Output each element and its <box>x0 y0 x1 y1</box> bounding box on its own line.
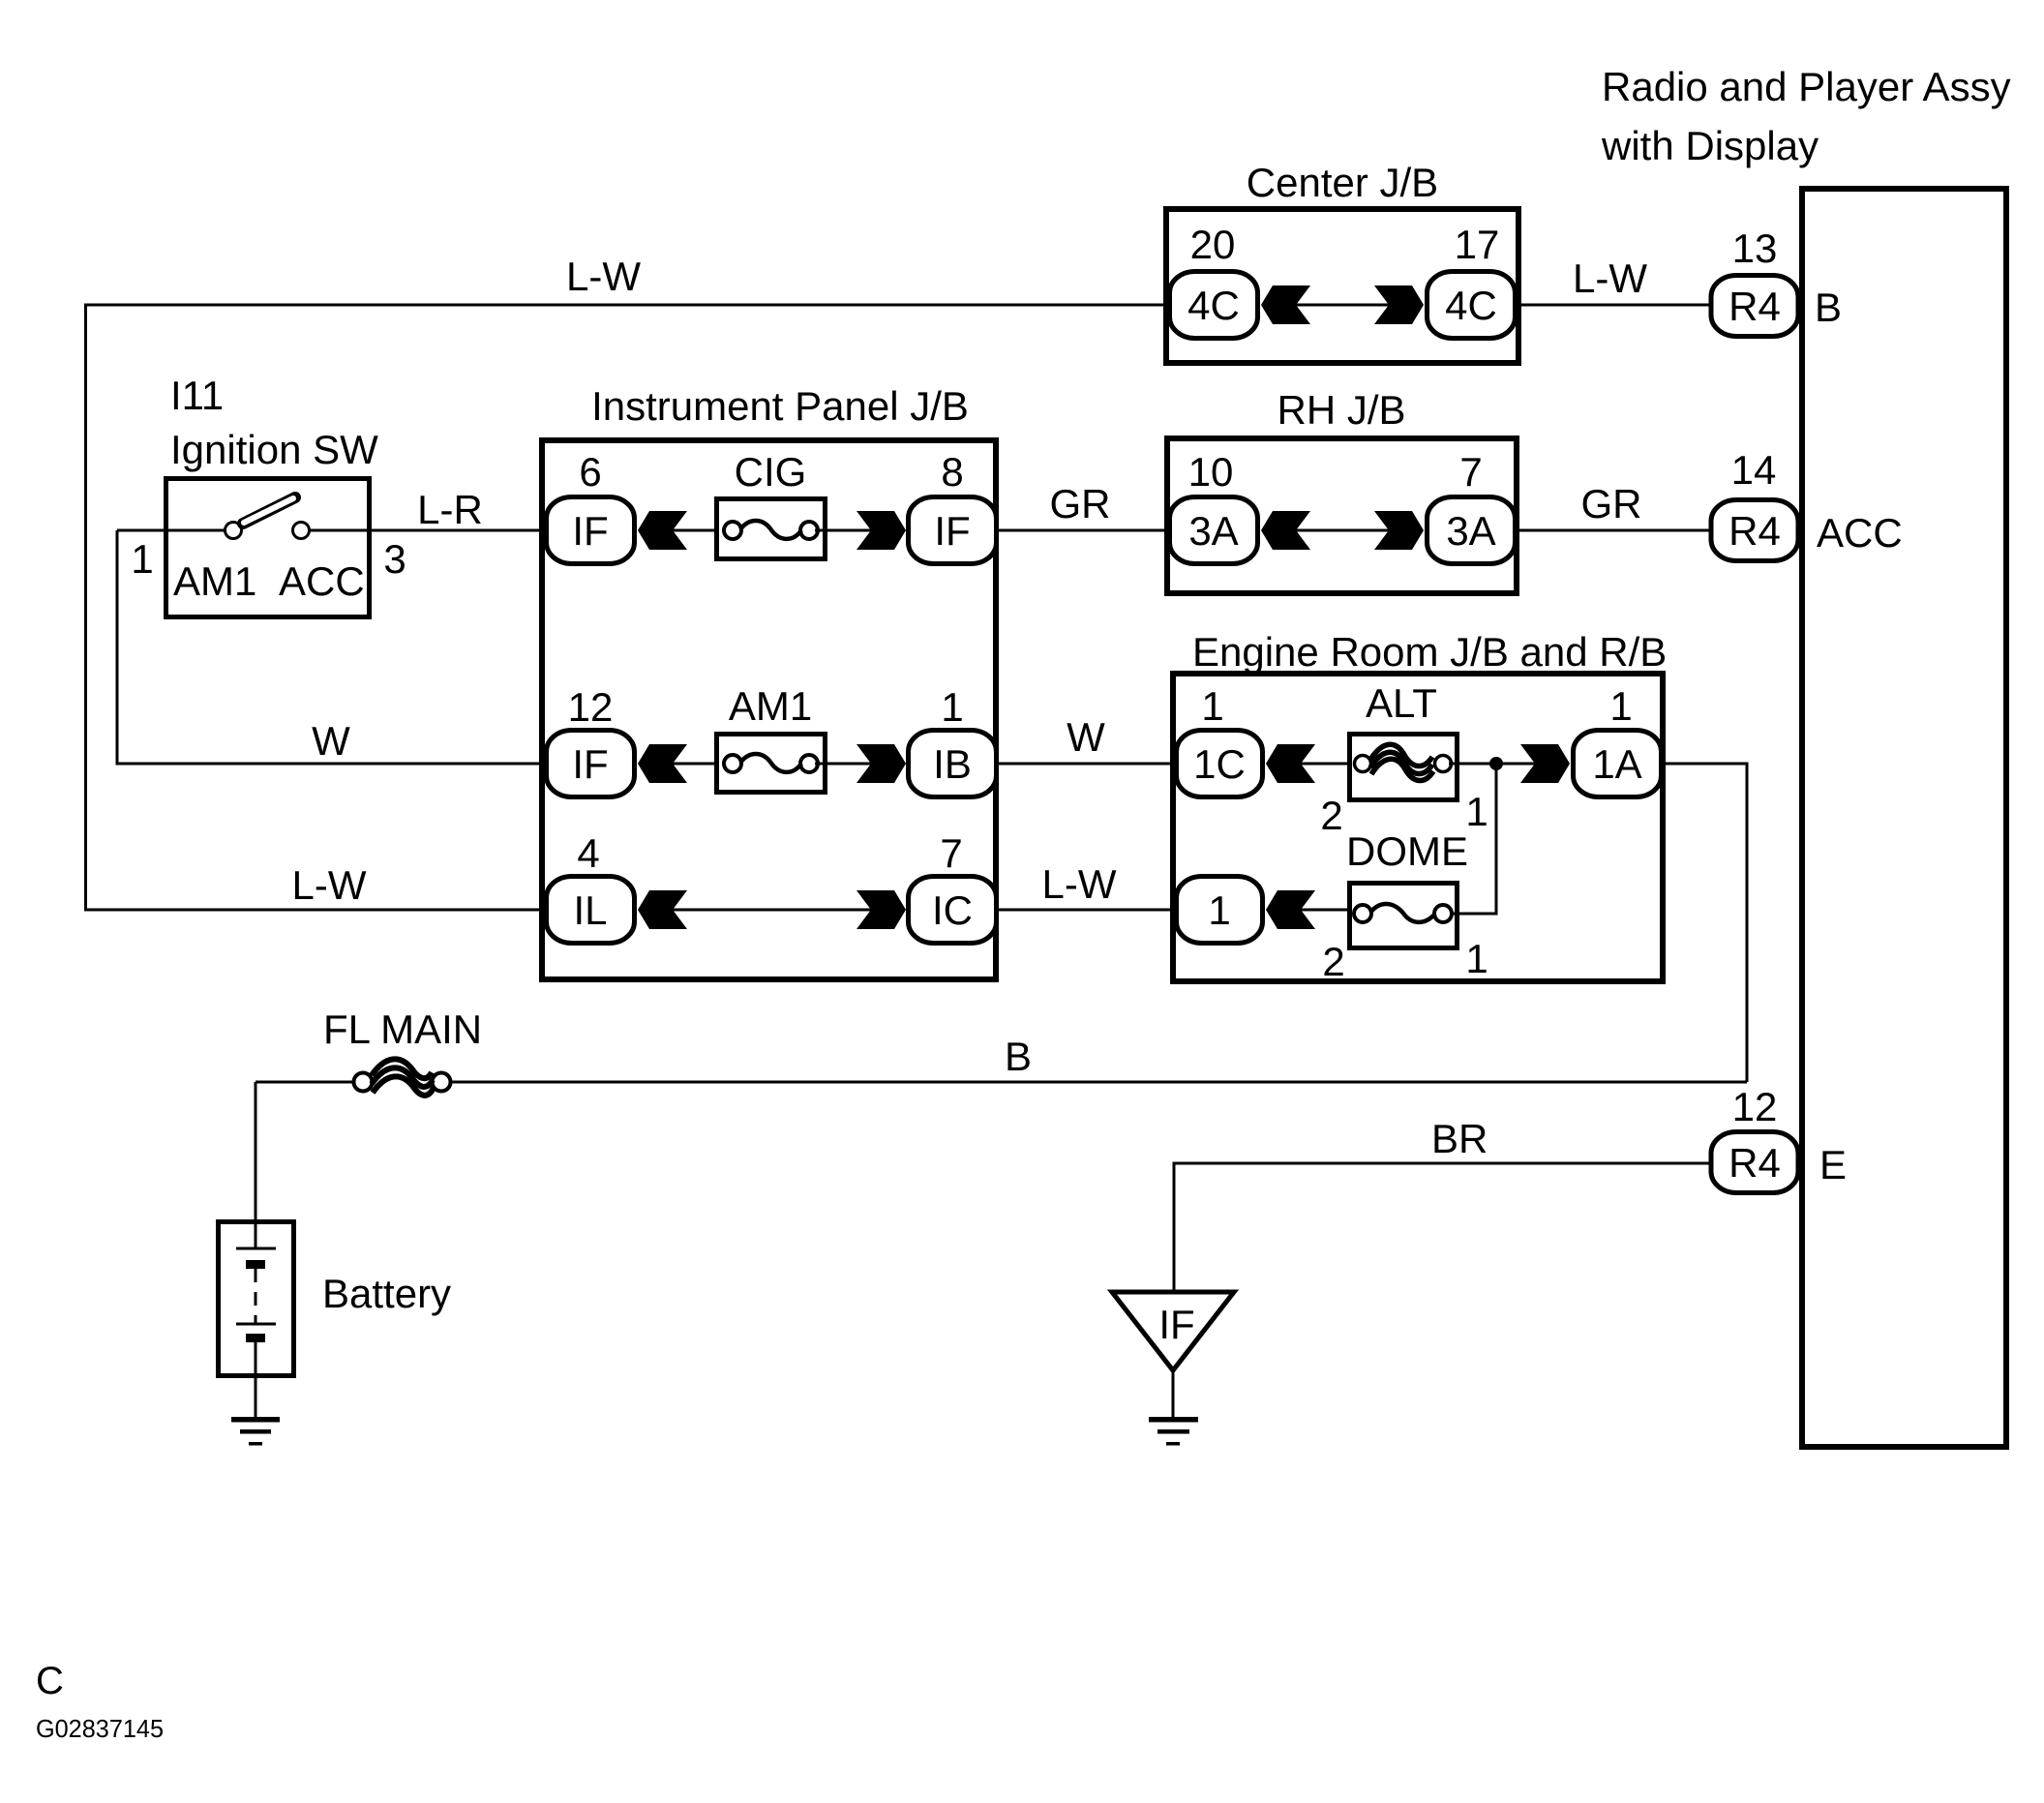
svg-text:14: 14 <box>1731 447 1777 493</box>
arrow left (ALT row) <box>1266 744 1315 783</box>
svg-text:IF: IF <box>572 508 608 554</box>
ground (IF) <box>1149 1417 1198 1423</box>
arrow left (DOME row) <box>1266 890 1315 929</box>
svg-text:Battery: Battery <box>322 1271 451 1316</box>
svg-text:1: 1 <box>941 684 963 730</box>
svg-text:IL: IL <box>573 887 607 933</box>
svg-text:20: 20 <box>1190 222 1236 267</box>
svg-text:IC: IC <box>932 887 973 933</box>
svg-text:I11: I11 <box>170 373 224 418</box>
svg-text:W: W <box>1067 714 1105 760</box>
connector IL pin 4 <box>547 877 635 944</box>
connector 1 (engine room) <box>1177 877 1263 944</box>
connector IC pin 7 <box>909 877 997 944</box>
wire ignition pin1 down to IF12 <box>117 530 544 764</box>
svg-text:ACC: ACC <box>1817 510 1903 556</box>
wire BR <box>1174 1163 1709 1294</box>
arrow right (ALT row) <box>1520 744 1570 783</box>
svg-text:FL MAIN: FL MAIN <box>323 1007 482 1052</box>
svg-text:Radio and Player Assy: Radio and Player Assy <box>1602 64 2011 109</box>
svg-text:CIG: CIG <box>735 449 807 495</box>
switch contact right (ACC) <box>293 523 310 539</box>
svg-text:R4: R4 <box>1728 508 1781 554</box>
wire arrow to DOME <box>1301 909 1359 912</box>
svg-text:C: C <box>36 1660 64 1702</box>
svg-text:IF: IF <box>1158 1302 1194 1347</box>
svg-text:4: 4 <box>577 830 599 876</box>
wire battery corner to FL MAIN <box>255 1081 354 1084</box>
wire arrow to ALT <box>1301 763 1359 766</box>
svg-text:IF: IF <box>934 508 970 554</box>
ground connector IF triangle <box>1112 1292 1234 1370</box>
svg-text:E: E <box>1819 1142 1847 1187</box>
svg-text:3: 3 <box>383 536 406 582</box>
wire CIG fuse to arrow <box>815 529 871 532</box>
svg-text:1C: 1C <box>1193 741 1246 787</box>
svg-text:BR: BR <box>1431 1116 1488 1161</box>
wire inside RH J/B <box>1296 529 1389 532</box>
connector 3A left <box>1170 497 1258 564</box>
wire 1A to B bus <box>1664 764 1747 1082</box>
svg-text:3A: 3A <box>1188 508 1238 554</box>
connector R4 pin 12 <box>1711 1132 1798 1193</box>
svg-text:R4: R4 <box>1728 1140 1781 1186</box>
wire IB to 1C (W) <box>999 763 1176 766</box>
wire arrow to AM1 fuse <box>673 763 726 766</box>
junction block Instrument Panel J/B <box>542 440 996 979</box>
svg-text:4C: 4C <box>1187 283 1240 328</box>
arrow right (CIG row) <box>857 511 906 550</box>
svg-text:IB: IB <box>933 741 972 787</box>
svg-text:1: 1 <box>1465 936 1488 981</box>
svg-text:L-R: L-R <box>417 487 483 532</box>
arrow right (AM1 row) <box>857 744 906 783</box>
connector 1A <box>1574 731 1662 797</box>
connector 4C right <box>1428 272 1516 339</box>
svg-text:ACC: ACC <box>279 558 365 604</box>
svg-text:1A: 1A <box>1592 741 1641 787</box>
svg-text:12: 12 <box>568 684 614 730</box>
arrow left (RH J/B) <box>1261 511 1310 550</box>
svg-text:RH J/B: RH J/B <box>1277 387 1405 433</box>
svg-text:10: 10 <box>1188 449 1234 495</box>
svg-text:GR: GR <box>1050 481 1111 526</box>
wire AM1 fuse to arrow <box>815 763 871 766</box>
svg-text:7: 7 <box>940 830 962 876</box>
connector R4 pin 14 <box>1711 500 1798 561</box>
svg-text:12: 12 <box>1732 1084 1778 1129</box>
battery <box>219 1222 294 1376</box>
svg-text:L-W: L-W <box>566 254 641 299</box>
svg-text:1: 1 <box>1609 683 1632 729</box>
switch contact left (AM1) <box>225 523 242 539</box>
svg-text:AM1: AM1 <box>173 558 256 604</box>
wire DOME up to junction <box>1450 764 1496 914</box>
wire FL MAIN down to battery <box>255 1082 257 1248</box>
arrow right (Center J/B) <box>1374 285 1424 324</box>
svg-text:2: 2 <box>1320 793 1342 838</box>
wire 3A to R4 (GR) <box>1518 529 1709 532</box>
wire: left vertical L-W bus <box>86 305 1168 910</box>
arrow left (AM1 row) <box>638 744 687 783</box>
junction block Engine Room J/B and R/B <box>1173 674 1663 981</box>
wire ignition switch pin 3 <box>309 529 544 532</box>
radio and player assy box <box>1802 189 2006 1447</box>
junction node <box>1489 757 1503 770</box>
arrow left (CIG row) <box>638 511 687 550</box>
svg-text:1: 1 <box>1465 789 1488 834</box>
svg-text:3A: 3A <box>1446 508 1495 554</box>
svg-text:GR: GR <box>1581 481 1642 526</box>
wire 4C to R4 (L-W) <box>1518 304 1709 307</box>
fusible link FL MAIN <box>354 1073 373 1092</box>
svg-text:1: 1 <box>131 536 153 582</box>
ignition switch box <box>166 479 370 617</box>
svg-text:B: B <box>1815 285 1842 330</box>
fusible link ALT <box>1350 735 1458 800</box>
svg-text:4C: 4C <box>1445 283 1497 328</box>
svg-text:Ignition SW: Ignition SW <box>170 427 378 472</box>
connector 4C left <box>1170 272 1258 339</box>
wire battery to ground <box>255 1342 257 1418</box>
svg-text:ALT: ALT <box>1366 680 1437 726</box>
wire into ignition switch pin 1 <box>117 529 225 532</box>
svg-text:1: 1 <box>1201 683 1223 729</box>
fuse CIG <box>717 499 826 559</box>
wire inside Center J/B <box>1296 304 1389 307</box>
wire IC to 1 (L-W) <box>999 909 1176 912</box>
svg-text:L-W: L-W <box>292 862 367 908</box>
connector IF pin 6 <box>547 497 635 564</box>
fuse DOME <box>1350 884 1458 948</box>
wire IF8 to 3A10 (GR) <box>999 529 1169 532</box>
fuse AM1 <box>717 735 826 793</box>
connector IF pin 8 <box>909 497 997 564</box>
junction block RH J/B <box>1167 438 1517 593</box>
ground (battery) <box>231 1417 280 1423</box>
connector R4 pin 13 <box>1711 276 1798 337</box>
wire arrow to CIG fuse <box>673 529 726 532</box>
svg-text:IF: IF <box>572 741 608 787</box>
svg-text:Engine Room J/B and R/B: Engine Room J/B and R/B <box>1192 629 1667 675</box>
connector IB pin 1 <box>909 731 997 797</box>
connector IF pin 12 <box>547 731 635 797</box>
connector 1C <box>1177 731 1263 797</box>
connector 3A right <box>1428 497 1516 564</box>
arrow left (Center J/B) <box>1261 285 1310 324</box>
svg-text:G02837145: G02837145 <box>36 1714 164 1743</box>
svg-text:8: 8 <box>941 449 963 495</box>
svg-text:Instrument Panel J/B: Instrument Panel J/B <box>591 383 969 429</box>
arrow right (IL row) <box>857 890 906 929</box>
svg-text:L-W: L-W <box>1042 861 1117 907</box>
svg-text:L-W: L-W <box>1573 255 1647 301</box>
svg-text:B: B <box>1005 1034 1032 1079</box>
svg-text:W: W <box>312 718 350 764</box>
svg-text:2: 2 <box>1322 939 1344 984</box>
switch lever <box>243 497 295 524</box>
arrow right (RH J/B) <box>1374 511 1424 550</box>
svg-text:6: 6 <box>579 449 601 495</box>
svg-text:7: 7 <box>1459 449 1482 495</box>
wire ALT to arrow with junction <box>1449 763 1535 766</box>
svg-text:1: 1 <box>1208 887 1230 933</box>
svg-text:R4: R4 <box>1728 284 1781 329</box>
wire triangle to ground <box>1172 1367 1175 1418</box>
svg-text:17: 17 <box>1455 222 1500 267</box>
svg-text:DOME: DOME <box>1346 828 1468 874</box>
svg-text:13: 13 <box>1732 225 1778 271</box>
arrow left (IL row) <box>638 890 687 929</box>
wire B bus <box>450 1081 1747 1084</box>
wire IL to IC <box>673 909 871 912</box>
svg-text:AM1: AM1 <box>729 683 812 729</box>
junction block Center J/B <box>1166 209 1518 363</box>
svg-text:with Display: with Display <box>1601 123 1819 168</box>
svg-text:Center J/B: Center J/B <box>1247 160 1438 205</box>
